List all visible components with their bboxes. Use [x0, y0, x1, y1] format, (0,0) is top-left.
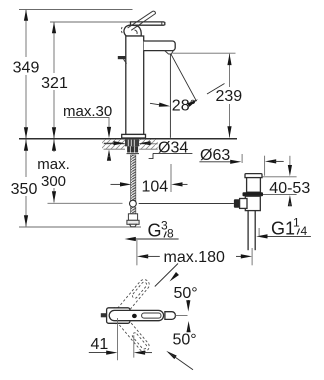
hose bead [130, 200, 137, 207]
plan view spout tip [165, 312, 176, 320]
svg-text:104: 104 [142, 179, 169, 196]
dimension 321 vertical line [52, 22, 56, 139]
axis up arrow [187, 321, 191, 332]
svg-text:max.180: max.180 [164, 249, 225, 266]
40-53 extension lines [263, 176, 297, 178]
O63 extension line left [241, 154, 243, 163]
plan view body [107, 308, 130, 324]
extension line top for 239 [173, 52, 236, 54]
svg-text:40-53: 40-53 [269, 180, 310, 197]
threaded shank below deck [125, 140, 139, 147]
deck ghost line mid left [104, 143, 126, 145]
svg-text:239: 239 [215, 88, 242, 105]
label G3/8 with leader [125, 219, 179, 242]
base flange [122, 134, 146, 138]
dimension 349 vertical line [24, 10, 28, 139]
41 extension line right [133, 335, 135, 357]
deck ghost line low right [139, 148, 158, 150]
svg-text:1: 1 [293, 216, 300, 230]
faucet lever horizontal [131, 22, 165, 25]
svg-text:8: 8 [167, 227, 174, 241]
dimension 239 vertical line [227, 54, 231, 138]
axis down arrow [186, 300, 190, 312]
svg-text:349: 349 [13, 60, 40, 77]
pop-up actuating rod [139, 203, 234, 205]
washer under nut [127, 153, 140, 155]
svg-text:G: G [148, 221, 162, 241]
28 degree right arrow [187, 84, 224, 107]
svg-text:max.: max. [37, 156, 70, 173]
plan view axis line [175, 315, 187, 317]
deck ghost line low left [104, 148, 126, 150]
faucet body column [126, 36, 144, 135]
svg-text:350: 350 [11, 181, 38, 198]
svg-text:41: 41 [91, 336, 109, 353]
label O63 with leader [199, 147, 241, 164]
mounting nut [127, 146, 138, 152]
svg-text:321: 321 [41, 75, 68, 92]
svg-text:28°: 28° [172, 98, 196, 115]
Ø34 arrows [104, 141, 152, 145]
extension line bottom for 350 [19, 226, 141, 228]
label max.30 with leader [63, 103, 112, 161]
pop-up waste flange [243, 192, 264, 196]
pop-up waste plug cap [245, 174, 262, 178]
hose lower threads [131, 207, 136, 214]
lever pivot housing [121, 25, 141, 36]
lower 50 leader line [165, 349, 193, 370]
O63 right arrow [265, 159, 284, 163]
water stream line [169, 54, 171, 138]
hose end fitting [127, 214, 139, 227]
plan view lever slot [142, 313, 161, 318]
dimension max.300 vertical line [52, 139, 56, 202]
svg-text:50°: 50° [174, 285, 198, 302]
plan view pivot dot [132, 314, 137, 318]
dimension 104 [111, 164, 188, 192]
waste lever socket [240, 199, 247, 209]
28 degree left arrow [150, 103, 171, 109]
aerator wedge [165, 51, 173, 54]
deck hatch right [139, 140, 158, 149]
extension line bottom for max.300 [48, 202, 123, 204]
waste lever knob [234, 199, 240, 207]
label G1 1/4 with leader [256, 216, 311, 239]
upper 50 leader line [155, 264, 179, 287]
label O34 with leader [149, 139, 193, 158]
supply hose threaded [131, 155, 136, 202]
41 extension line left [117, 318, 119, 360]
dimension max.180 [137, 254, 252, 258]
plan view dashed lever rotated down [108, 305, 151, 353]
max.180 extension lines [136, 240, 138, 265]
28 degree spray line [171, 54, 197, 101]
dimension 40-53 [288, 156, 292, 207]
dimension 350 vertical line [24, 139, 28, 226]
svg-text:G1: G1 [271, 219, 295, 239]
side knob on body [118, 56, 127, 64]
waste tailpipe [248, 211, 255, 251]
faucet lever tilted position [128, 11, 156, 30]
extension line top for 321 [50, 21, 131, 23]
plan view dashed lever rotated up [109, 277, 152, 325]
extension line top for 349 [19, 9, 133, 11]
deck ghost line mid right [139, 143, 158, 145]
pop-up waste lower body [245, 196, 260, 210]
dimension 41 [89, 351, 152, 355]
plan view lever [109, 310, 163, 320]
svg-text:4: 4 [301, 224, 308, 238]
spout [144, 41, 176, 51]
deck hatch left [102, 140, 125, 149]
plan view nub [101, 313, 107, 317]
countertop deck line [19, 138, 237, 140]
svg-text:300: 300 [41, 173, 66, 190]
O63 extension line right [264, 156, 266, 176]
pop-up waste upper body [247, 178, 261, 193]
svg-text:50°: 50° [173, 332, 197, 349]
